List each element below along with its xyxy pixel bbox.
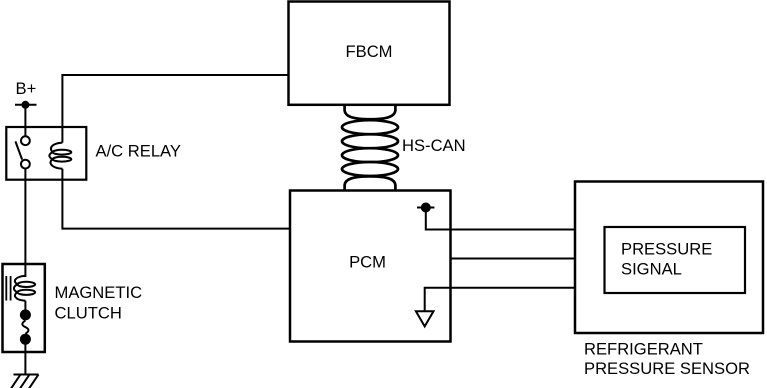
svg-text:B+: B+ xyxy=(16,79,37,98)
svg-text:HS-CAN: HS-CAN xyxy=(402,136,466,155)
svg-text:FBCM: FBCM xyxy=(345,42,392,61)
svg-text:SIGNAL: SIGNAL xyxy=(621,259,682,278)
svg-text:A/C RELAY: A/C RELAY xyxy=(96,141,181,160)
svg-text:PCM: PCM xyxy=(349,253,386,272)
svg-text:PRESSURE: PRESSURE xyxy=(621,240,712,259)
svg-text:MAGNETIC: MAGNETIC xyxy=(55,283,143,302)
svg-text:REFRIGERANT: REFRIGERANT xyxy=(584,340,703,359)
svg-text:CLUTCH: CLUTCH xyxy=(55,304,122,323)
svg-text:PRESSURE SENSOR: PRESSURE SENSOR xyxy=(584,359,750,378)
